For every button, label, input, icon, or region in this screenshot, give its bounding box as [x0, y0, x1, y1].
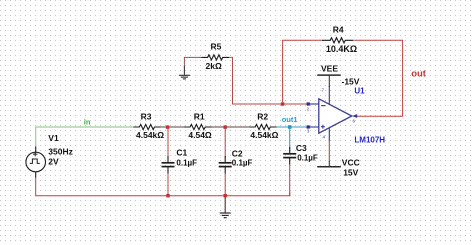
wire: C2 to ground rail (red) — [224, 174, 226, 196]
power symbol VEE — [317, 74, 341, 76]
junction R4 leg / inv input (red) — [281, 102, 284, 105]
output pin arrow (pin 6) — [352, 114, 357, 118]
svg-text:out1: out1 — [282, 115, 298, 124]
wire: C1 to ground rail (red) — [167, 174, 169, 196]
wire: junction down to C1 (red) — [167, 127, 169, 158]
plus marker — [321, 125, 325, 129]
svg-text:2V: 2V — [48, 156, 59, 166]
wire: R5 right down to inverting input line (red) — [229, 57, 307, 104]
svg-text:350Hz: 350Hz — [48, 147, 73, 157]
wire: out1 net (cyan) R2 to op-amp + input — [277, 126, 307, 128]
svg-text:VCC: VCC — [342, 157, 360, 167]
svg-text:C2: C2 — [232, 149, 243, 159]
wire: in net (green) from V1 to R3 — [36, 127, 134, 147]
svg-text:15V: 15V — [343, 167, 358, 177]
wire: junction down to C2 (red) — [224, 127, 226, 158]
svg-text:R5: R5 — [211, 41, 222, 51]
capacitor C1 — [162, 156, 175, 174]
svg-text:VEE: VEE — [321, 63, 338, 73]
wire: op-amp - input pin stub — [307, 103, 319, 105]
svg-text:-15V: -15V — [342, 77, 360, 87]
junction out1/C3 (cyan) — [288, 125, 292, 129]
pin end square (+ input, pin 3) — [307, 125, 310, 128]
capacitor C3 — [283, 147, 296, 165]
power symbol VCC — [317, 166, 341, 168]
resistor R2 — [249, 124, 276, 129]
junction C2/rail/ground — [224, 194, 227, 197]
wire: R4 top loop (red): left leg, top run, right leg, to op-amp output — [283, 40, 322, 102]
wire: C3 down to ground rail (red) — [289, 165, 291, 197]
svg-text:R3: R3 — [141, 111, 152, 121]
svg-text:0.1µF: 0.1µF — [176, 159, 197, 168]
svg-text:U1: U1 — [354, 87, 365, 96]
svg-text:0.1µF: 0.1µF — [297, 153, 318, 162]
pin end square (- input, pin 2) — [307, 102, 310, 105]
ground symbol (bottom, under C2) — [220, 197, 231, 218]
svg-text:4.54kΩ: 4.54kΩ — [250, 130, 278, 140]
op-amp U1 — [319, 99, 352, 133]
minus marker — [321, 105, 325, 107]
svg-text:C3: C3 — [296, 143, 307, 153]
resistor R1 — [184, 124, 212, 129]
svg-text:out: out — [411, 68, 427, 79]
svg-text:4.54kΩ: 4.54kΩ — [136, 130, 164, 140]
wire: R5 left to ground (dark red) — [184, 57, 201, 67]
ground symbol (upper, left of R5) — [179, 66, 190, 79]
svg-text:V1: V1 — [48, 133, 59, 143]
svg-text:R1: R1 — [194, 111, 205, 121]
svg-text:R2: R2 — [257, 111, 268, 121]
svg-text:4.54Ω: 4.54Ω — [188, 130, 212, 140]
junction node at R1/C2 — [224, 125, 227, 128]
junction node at R3/C1 — [166, 125, 169, 128]
svg-text:C1: C1 — [176, 147, 187, 157]
resistor R3 — [133, 124, 161, 129]
svg-text:2kΩ: 2kΩ — [206, 61, 222, 71]
svg-text:R4: R4 — [333, 25, 344, 35]
junction C1/rail — [166, 194, 169, 197]
resistor R5 — [202, 55, 230, 60]
wire: VEE power pin (pin 7) — [328, 86, 330, 104]
capacitor C2 — [219, 156, 232, 174]
wire: R1 to R2 via junction (red) — [212, 126, 250, 128]
source V1 — [26, 147, 46, 178]
wire: bottom ground rail (net 0, red) — [36, 177, 290, 196]
svg-text:10.4KΩ: 10.4KΩ — [326, 44, 357, 54]
wire: junction down to C3 (cyan) — [289, 127, 291, 149]
wire: op-amp + input pin stub — [307, 126, 319, 128]
wire: VCC power pin (pin 4) — [328, 128, 330, 142]
svg-text:in: in — [84, 118, 91, 127]
svg-text:0.1µF: 0.1µF — [232, 159, 253, 168]
wire: R3 to R1 via junction (red) — [161, 126, 184, 128]
resistor R4 — [322, 38, 354, 43]
svg-text:LM107H: LM107H — [354, 135, 385, 144]
